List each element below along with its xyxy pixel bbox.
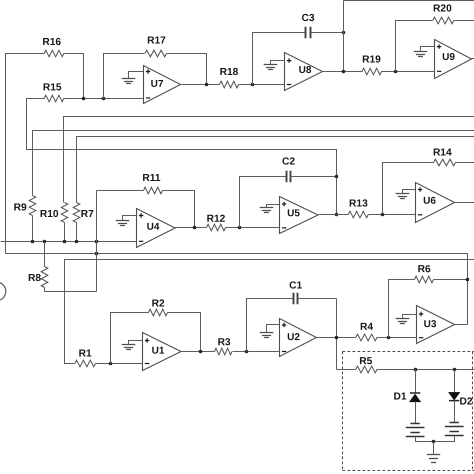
resistor R9 <box>14 196 36 216</box>
wire bus1 summing line to U4 <box>1 241 137 243</box>
wire R17 to U7 output <box>167 54 207 85</box>
svg-text:R5: R5 <box>359 356 372 367</box>
wire U7 output to R18 <box>181 84 220 86</box>
wire R16 left leg to bus2 <box>6 54 45 254</box>
svg-text:R15: R15 <box>43 82 62 93</box>
svg-text:C3: C3 <box>301 13 314 24</box>
ground U7 <box>122 72 144 84</box>
wire R3 to U2 inverting input <box>233 351 280 353</box>
ground U1 <box>122 341 143 350</box>
wire bus3 to R1 <box>65 260 474 364</box>
node C3 right junction <box>342 31 346 35</box>
node U1 output <box>199 350 203 354</box>
svg-text:U7: U7 <box>151 79 164 90</box>
node vert-bus1 <box>95 240 99 244</box>
diode D1 <box>393 391 420 402</box>
node U4 output <box>193 226 197 230</box>
node C2 right junction <box>335 175 339 179</box>
wire R2 feedback loop <box>111 313 149 364</box>
op-amp U9 <box>435 40 472 79</box>
svg-text:R9: R9 <box>14 202 27 213</box>
dashed limiter box top <box>343 351 474 353</box>
wire bus from R7 to right edge <box>77 137 474 203</box>
capacitor C2 <box>282 156 295 182</box>
svg-text:U2: U2 <box>287 332 300 343</box>
node U3 summing junction <box>387 336 391 340</box>
wire R10 bottom to bus1 <box>64 223 66 242</box>
wire D2 cathode leg <box>454 370 456 393</box>
resistor R4 <box>356 322 377 341</box>
wire B2 to common <box>434 436 455 442</box>
resistor R12 <box>207 214 226 231</box>
wire summing vertical <box>96 191 98 292</box>
node R6-U3 output junction <box>466 278 470 282</box>
wire C3 feedback left leg <box>253 33 306 85</box>
resistor R13 <box>348 198 368 217</box>
ground U3 <box>396 315 417 324</box>
wire R9 bottom to bus1 <box>32 216 34 242</box>
svg-text:D1: D1 <box>393 391 406 402</box>
wire R15 left leg to feedback bus <box>27 99 337 215</box>
wire R5 to diodes and right edge <box>377 369 474 371</box>
node U2 output junction <box>335 336 339 340</box>
wire R7 bottom to bus1 <box>76 223 78 242</box>
wire U3 output to feedback vertical <box>455 324 468 326</box>
battery B1 <box>406 424 425 437</box>
wire U2 output down to R5 <box>337 369 356 371</box>
wire bus from R9 to right edge <box>33 131 474 196</box>
node U5 summing junction <box>238 226 242 230</box>
wire U9 output to right edge <box>472 58 474 60</box>
wire R17 feedback loop <box>104 54 145 99</box>
battery B2 <box>445 423 464 436</box>
svg-text:R14: R14 <box>433 147 452 158</box>
resistor R7 <box>73 203 94 223</box>
op-amp U8 <box>285 53 323 91</box>
wire top edge feedback <box>344 0 474 2</box>
wire D1 anode leg <box>415 370 417 393</box>
wire U8 output vertical to top edge <box>343 1 345 72</box>
wire U1 output to R3 <box>181 351 215 353</box>
svg-text:R1: R1 <box>79 348 92 359</box>
wire R18 to U8 inverting input <box>239 84 285 86</box>
svg-text:R17: R17 <box>147 35 166 46</box>
node U7 output <box>205 83 209 87</box>
wire R6 right to bus2 vertical <box>434 279 468 281</box>
svg-text:C1: C1 <box>289 280 302 291</box>
capacitor C1 <box>289 280 302 304</box>
node R15-R16 junction <box>82 97 86 101</box>
wire U6 output to right edge <box>455 202 474 204</box>
ground U6 <box>396 190 416 199</box>
svg-text:U3: U3 <box>424 319 437 330</box>
wire U5 output to R13 <box>319 214 349 216</box>
svg-text:R2: R2 <box>152 298 165 309</box>
ground battery common <box>427 442 440 463</box>
op-amp U6 <box>416 183 455 223</box>
wire C2 feedback left leg <box>240 177 287 228</box>
wire bus2 outer feedback <box>6 254 468 325</box>
resistor R10 <box>40 203 68 223</box>
resistor R16 <box>42 37 63 57</box>
svg-text:R13: R13 <box>349 198 368 209</box>
op-amp U5 <box>280 197 319 234</box>
wire R2 to U1 output <box>168 313 201 352</box>
wire U2 output vertical to R5 <box>336 299 338 370</box>
dashed limiter box bottom <box>343 470 474 472</box>
svg-text:U9: U9 <box>442 52 455 63</box>
wire R8 top leg <box>44 242 46 267</box>
node U5 output vertical <box>335 213 339 217</box>
wire U2 output to R4 <box>317 337 356 339</box>
svg-text:R10: R10 <box>40 209 59 220</box>
wire R12 to U5 inverting input <box>226 227 280 229</box>
ground U2 <box>260 325 280 338</box>
wire C2 right to U5 output <box>291 176 337 178</box>
wire B1 to common <box>416 437 434 442</box>
node R9-bus1 <box>31 240 35 244</box>
resistor R1 <box>75 348 96 366</box>
wire R13 to U6 inverting input <box>369 214 416 216</box>
wire R20 feedback left leg <box>396 21 433 72</box>
ground U8 <box>264 61 285 70</box>
svg-text:R8: R8 <box>28 273 41 284</box>
op-amp U2 <box>280 319 317 357</box>
dashed limiter box right <box>472 352 474 471</box>
wire bus from R10 to right edge <box>64 117 474 203</box>
wire D2 to battery B2 <box>454 401 456 423</box>
resistor R8 <box>28 267 48 288</box>
wire R14 to right edge <box>456 162 474 164</box>
resistor R20 <box>433 3 454 23</box>
wire U8 output to R19 <box>323 71 363 73</box>
resistor R11 <box>142 173 162 194</box>
node R8-bus1 <box>43 240 47 244</box>
wire C3 right to U8 output <box>311 32 344 34</box>
wire R16 right to R15 junction <box>64 54 84 99</box>
svg-text:U8: U8 <box>299 65 312 76</box>
op-amp U4 <box>137 209 176 248</box>
node R17 feedback junction <box>102 97 106 101</box>
svg-text:U1: U1 <box>152 346 165 357</box>
resistor R18 <box>220 67 239 88</box>
node R7-bus1 <box>75 240 79 244</box>
wire R4 to U3 inverting input <box>377 337 417 339</box>
svg-text:R11: R11 <box>142 173 160 184</box>
wire R11 feedback top <box>97 190 144 192</box>
wire R19 to U9 inverting input <box>382 71 435 73</box>
resistor R19 <box>362 54 381 74</box>
svg-text:U4: U4 <box>147 222 160 233</box>
node D2 top <box>453 368 457 372</box>
svg-text:R6: R6 <box>418 264 431 275</box>
op-amp U3 <box>417 306 455 344</box>
diode D2 <box>449 392 473 407</box>
node U6 summing junction <box>381 213 385 217</box>
wire R1 to U1 inverting input <box>96 363 143 365</box>
dashed limiter box left <box>342 352 344 471</box>
node U1 summing junction <box>109 362 113 366</box>
resistor R2 <box>149 298 168 315</box>
wire C1 feedback left leg <box>247 299 294 352</box>
resistor R5 <box>356 356 377 373</box>
wire R11 to U4 output <box>163 191 195 229</box>
wire R6 feedback left leg <box>389 280 415 338</box>
wire U4 output to R12 <box>175 227 207 229</box>
svg-text:R4: R4 <box>360 322 373 333</box>
wire R8 bottom leg <box>45 288 97 292</box>
svg-text:R18: R18 <box>220 67 239 78</box>
wire R20 to right edge <box>454 20 474 22</box>
svg-text:R7: R7 <box>81 209 94 220</box>
resistor R15 <box>43 82 64 101</box>
op-amp U7 <box>144 66 181 104</box>
node R10-bus1 <box>63 240 67 244</box>
svg-text:R12: R12 <box>207 214 226 225</box>
resistor R17 <box>145 35 166 56</box>
resistor R6 <box>415 264 434 283</box>
op-amp U1 <box>143 333 182 371</box>
node U8 output <box>342 70 346 74</box>
node D1 top <box>414 368 418 372</box>
wire R14 feedback left leg <box>383 163 434 215</box>
node battery common <box>432 440 436 444</box>
svg-text:D2: D2 <box>459 396 472 407</box>
node U2 summing junction <box>245 350 249 354</box>
resistor R14 <box>433 147 456 165</box>
svg-text:R3: R3 <box>218 337 231 348</box>
capacitor C3 <box>301 13 314 38</box>
svg-text:U6: U6 <box>423 196 436 207</box>
ground U4 <box>116 216 137 226</box>
svg-text:R19: R19 <box>362 54 381 65</box>
source input terminal <box>0 282 6 301</box>
wire D1 to battery B1 <box>415 402 417 424</box>
resistor R3 <box>215 337 233 355</box>
wire C1 right leg <box>298 298 337 300</box>
node U8 summing junction <box>251 83 255 87</box>
ground U9 <box>414 47 435 57</box>
svg-text:U5: U5 <box>287 208 300 219</box>
wire R15 right to U7 inverting input <box>64 98 144 100</box>
node U9 summing junction <box>394 70 398 74</box>
ground U5 <box>260 205 280 213</box>
svg-text:C2: C2 <box>282 156 295 167</box>
svg-text:R16: R16 <box>42 37 61 48</box>
svg-text:R20: R20 <box>433 3 452 14</box>
node vert-bus2 <box>95 252 99 256</box>
